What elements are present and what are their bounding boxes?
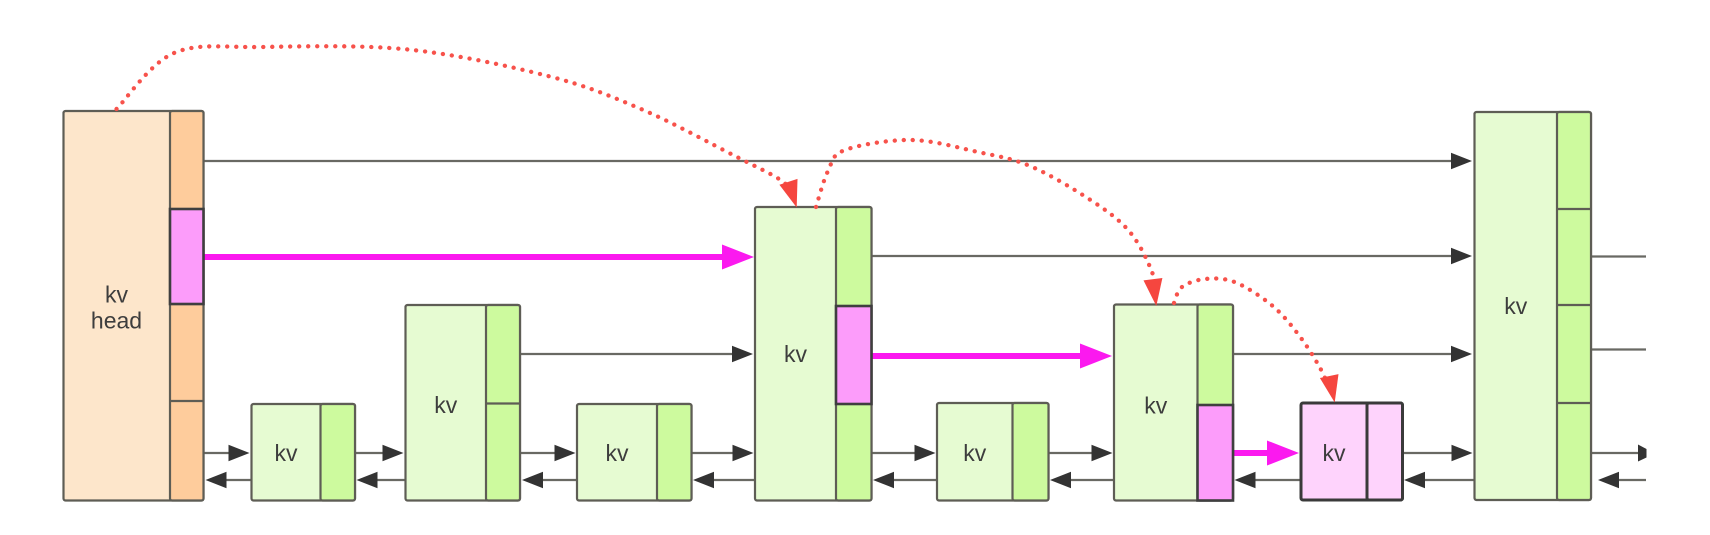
svg-text:kv: kv — [606, 440, 630, 466]
svg-text:kv: kv — [1323, 440, 1347, 466]
svg-text:kv: kv — [1504, 293, 1528, 319]
svg-text:kv: kv — [434, 392, 458, 418]
svg-text:kv: kv — [784, 341, 808, 367]
svg-text:kv: kv — [105, 282, 129, 308]
svg-text:kv: kv — [275, 440, 299, 466]
svg-text:kv: kv — [1144, 393, 1168, 419]
svg-text:head: head — [91, 308, 142, 334]
svg-text:kv: kv — [963, 440, 987, 466]
